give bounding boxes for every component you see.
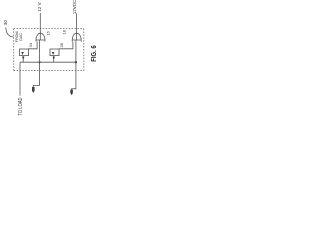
wire: +12V supply rail 2 down to Q2 [76, 14, 78, 41]
transistor Q1 (dome) [36, 33, 45, 41]
wire: bus down to output lead [19, 62, 21, 95]
dashed box left border [13, 29, 15, 71]
junction node at bus / Q2 output [75, 61, 77, 63]
current source symbol inside box 34 [21, 52, 24, 55]
dashed box bottom border [14, 70, 84, 72]
arrowhead on stub below box 36 [53, 57, 56, 60]
dashed box (driver circuit 30) top border [14, 28, 84, 30]
output arrowhead under Q2 branch [70, 90, 73, 95]
svg-text:DAC: DAC [19, 33, 23, 41]
wire: Q1 collector output down [33, 40, 39, 87]
wire: stub below box 36 to common bus [53, 56, 55, 63]
svg-text:18: 18 [62, 29, 67, 34]
svg-text:16: 16 [45, 31, 50, 36]
wire: current source 34 output to Q1 [29, 42, 38, 49]
wire: stub below box 34 to common bus [22, 56, 24, 63]
svg-text:TO LOAD: TO LOAD [18, 97, 24, 115]
svg-text:FIG. 6: FIG. 6 [89, 45, 98, 62]
output arrowhead under Q1 branch [32, 87, 35, 93]
dashed box right border [83, 29, 85, 71]
wire: common return bus [20, 61, 76, 63]
current source box 36 [50, 49, 59, 56]
arrowhead on stub below box 34 [22, 57, 25, 60]
leader arc from label 30 to dashed box [6, 28, 14, 38]
transistor Q2 (dome) [72, 33, 81, 41]
wire: current source 36 output to Q2 [59, 42, 73, 49]
junction node at bus / Q1 output [39, 61, 41, 63]
svg-text:30: 30 [3, 20, 8, 26]
svg-text:12 V: 12 V [37, 2, 42, 11]
svg-text:12VDC: 12VDC [72, 0, 77, 14]
current source symbol inside box 36 [52, 52, 55, 55]
wire: Q2 collector output down [72, 40, 76, 90]
current source box 34 [20, 49, 29, 56]
svg-text:34: 34 [28, 42, 33, 47]
svg-text:36: 36 [59, 42, 64, 47]
wire: +12V supply rail 1 down to Q1 [39, 13, 41, 40]
